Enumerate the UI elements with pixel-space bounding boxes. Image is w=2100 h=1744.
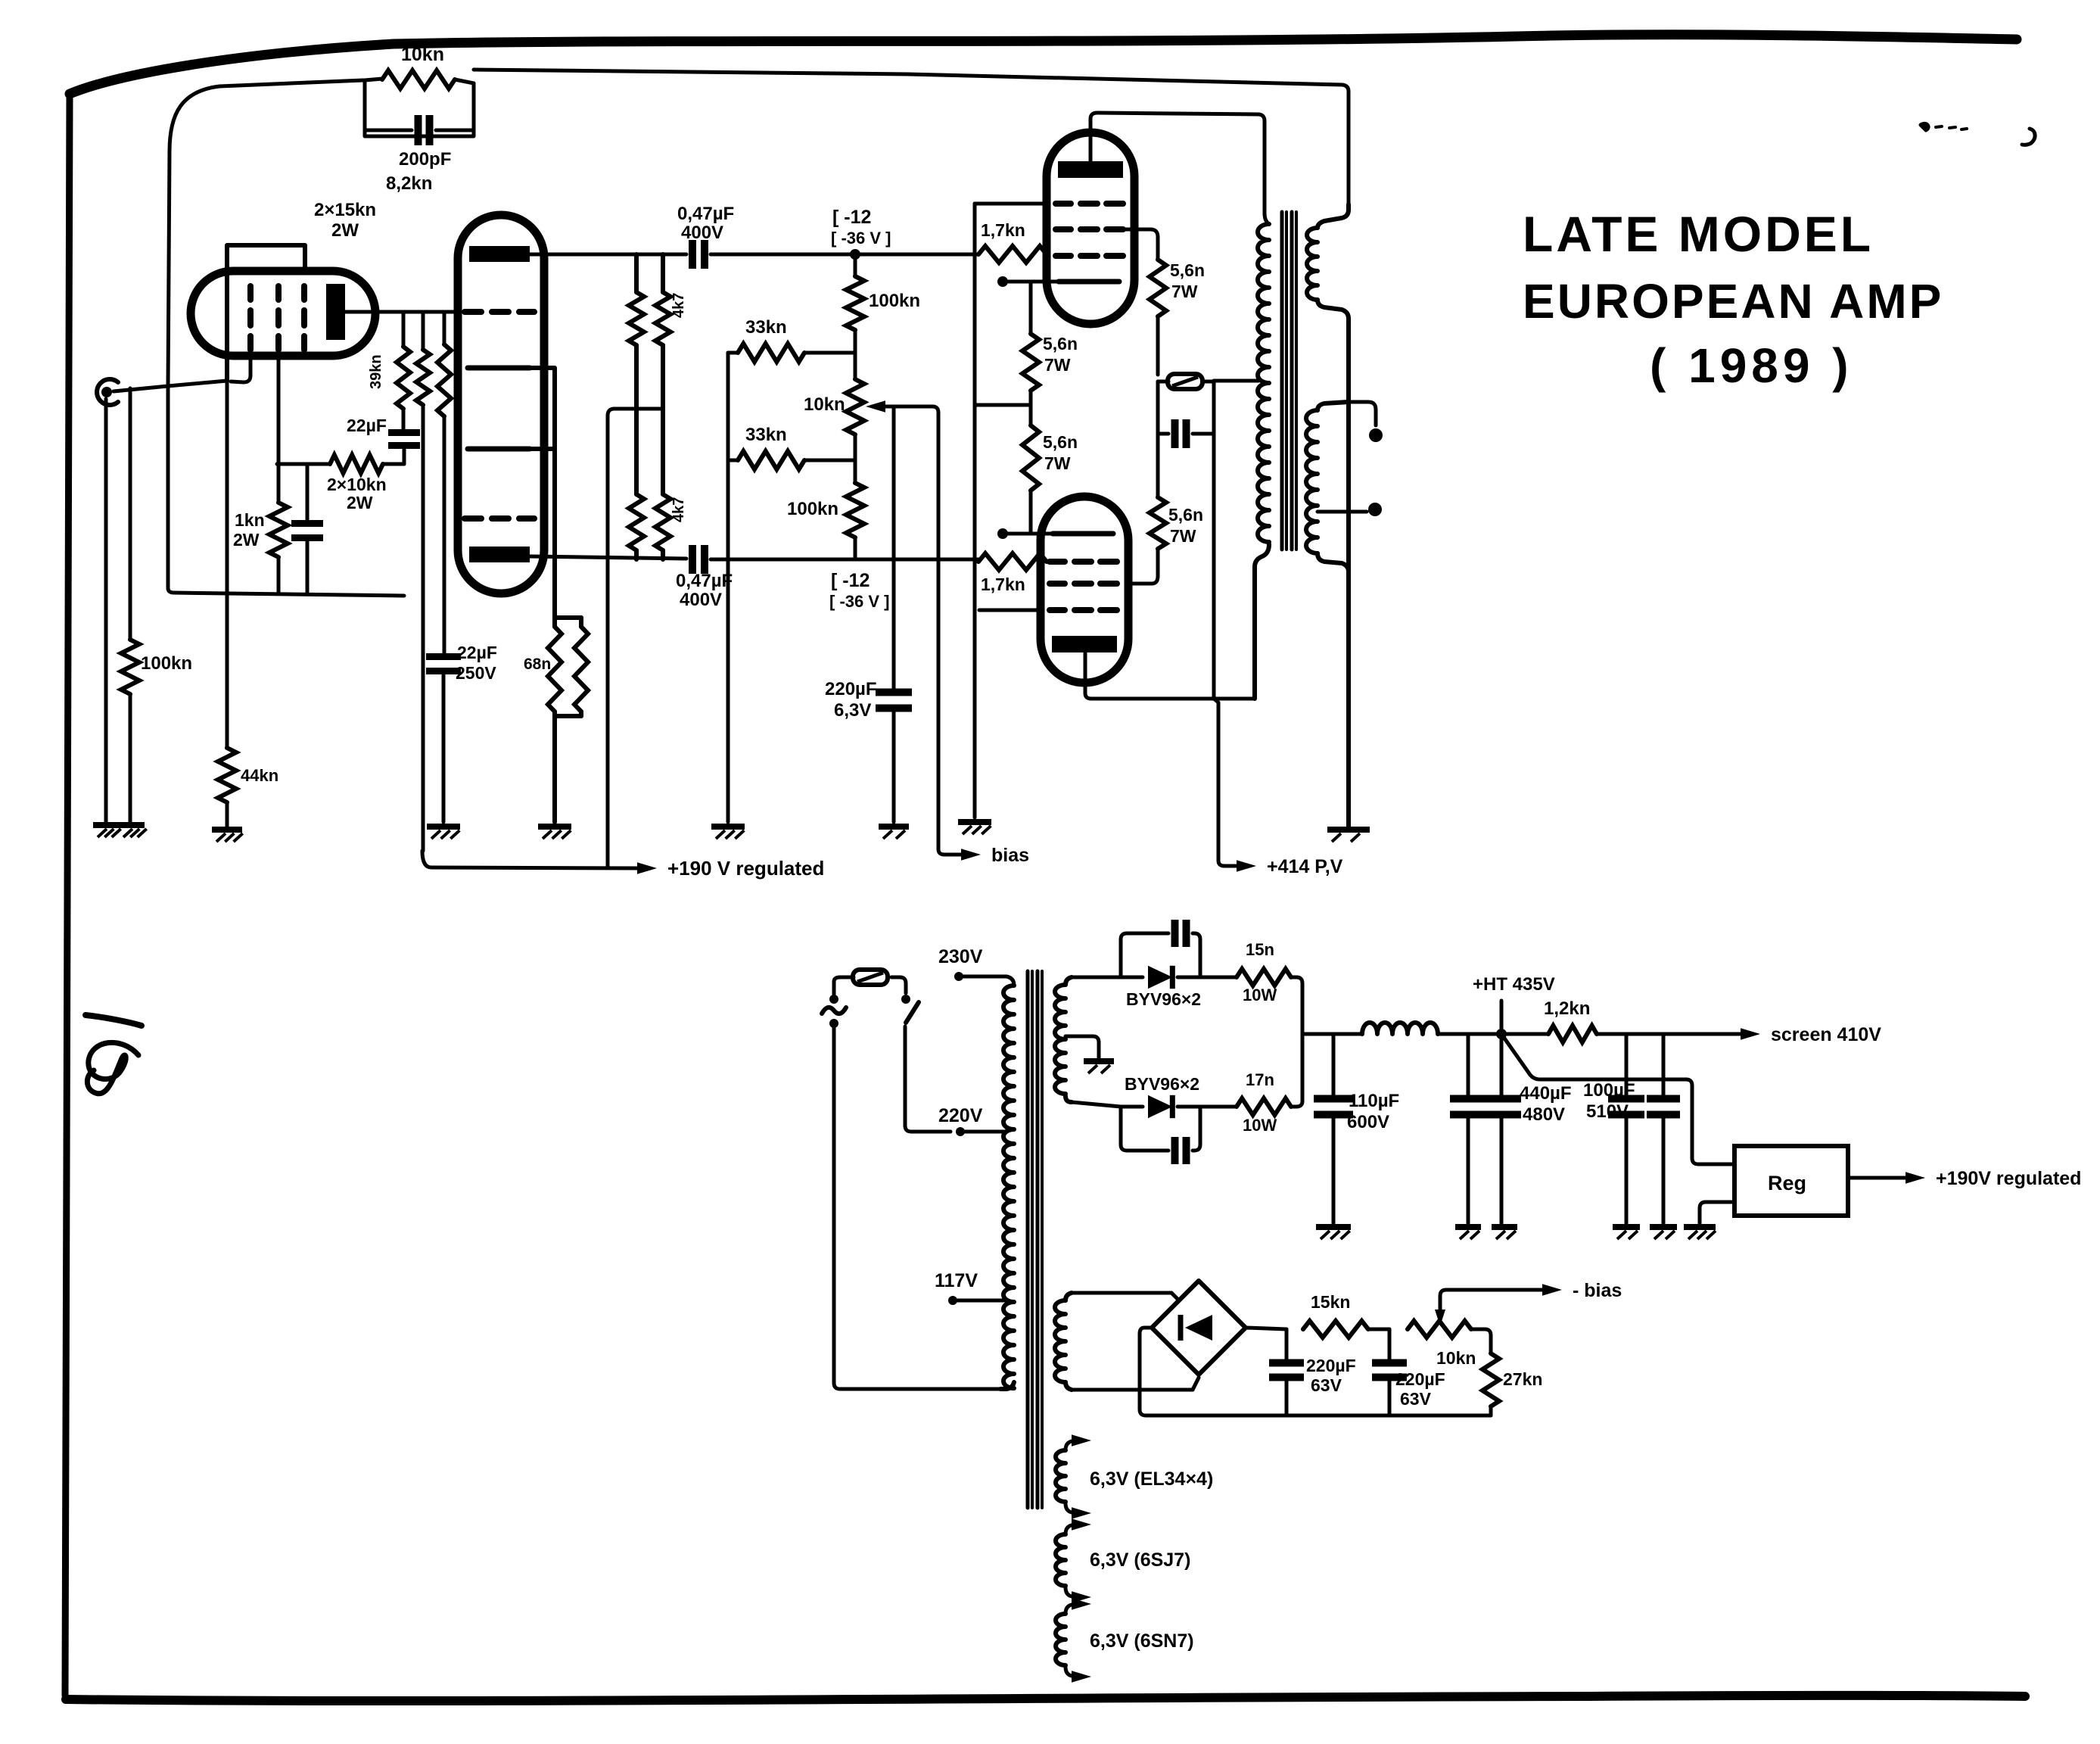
svg-text:2W: 2W bbox=[331, 220, 359, 241]
svg-text:230V: 230V bbox=[938, 946, 983, 967]
tube V4 cathode bbox=[1053, 531, 1113, 537]
wire V1 anode lead bbox=[345, 310, 458, 314]
svg-text:220µF: 220µF bbox=[825, 679, 877, 699]
wire feedback riser bbox=[168, 80, 363, 386]
label 27kn bbox=[1503, 1369, 1542, 1389]
svg-text:10kn: 10kn bbox=[804, 394, 845, 415]
svg-text:10kn: 10kn bbox=[401, 44, 444, 65]
resistor screen dropper bbox=[437, 312, 451, 656]
svg-text:BYV96×2: BYV96×2 bbox=[1125, 1074, 1199, 1094]
tube V1 grid cage box bbox=[227, 245, 305, 381]
tube V2 anode 1 plate bbox=[469, 246, 530, 262]
svg-text:2W: 2W bbox=[347, 493, 373, 512]
pot wiper arrow bbox=[866, 400, 885, 413]
svg-text:6,3V (6SJ7): 6,3V (6SJ7) bbox=[1090, 1549, 1190, 1571]
diode BYV96 top bbox=[1121, 966, 1200, 989]
label 117V bbox=[935, 1270, 978, 1291]
label 230V bbox=[938, 946, 983, 967]
tap 117V bbox=[948, 1296, 1005, 1305]
wire +190V regulated rail bbox=[422, 851, 639, 868]
label 22µF 250V bbox=[456, 643, 497, 683]
tail resistor with loop bbox=[548, 618, 588, 822]
svg-text:2×10kn: 2×10kn bbox=[327, 475, 387, 494]
regulator box bbox=[1734, 1146, 1848, 1216]
svg-text:100kn: 100kn bbox=[869, 291, 920, 311]
svg-text:220V: 220V bbox=[938, 1105, 983, 1126]
svg-text:1kn: 1kn bbox=[235, 510, 265, 530]
arrow screen 410V bbox=[1741, 1028, 1760, 1040]
svg-text:2W: 2W bbox=[233, 530, 260, 550]
label 1,7kn lower bbox=[981, 575, 1025, 594]
capacitor 440µF 480V bbox=[1482, 1034, 1521, 1223]
capacitor screen bypass bbox=[1158, 381, 1214, 448]
svg-text:220µF: 220µF bbox=[1395, 1369, 1445, 1389]
capacitor 110µF 600V bbox=[1314, 1034, 1353, 1223]
label 15kn bias bbox=[1311, 1292, 1350, 1312]
resistor 1,2kn screen feed bbox=[1548, 1026, 1741, 1042]
wire AC neutral down bbox=[834, 1028, 1000, 1389]
tube V2 grid 1 dashes bbox=[465, 309, 534, 315]
resistor 5,6n 7W V4 screen bbox=[1129, 434, 1166, 584]
wire HT bottom to rectifier bbox=[1072, 1102, 1121, 1107]
svg-text:220µF: 220µF bbox=[1306, 1356, 1356, 1375]
bypass capacitor top diode bbox=[1121, 920, 1200, 977]
svg-text:440µF: 440µF bbox=[1520, 1083, 1572, 1104]
label 100kn upper bbox=[869, 291, 920, 311]
svg-text:39kn: 39kn bbox=[368, 354, 384, 389]
label 220µF 63V a bbox=[1306, 1356, 1356, 1395]
svg-text:7W: 7W bbox=[1171, 282, 1198, 301]
wire fuse node to primary CT bbox=[1214, 379, 1258, 383]
svg-text:0,47µF: 0,47µF bbox=[676, 571, 733, 591]
wire fuse to switch bbox=[891, 977, 906, 993]
svg-text:bias: bias bbox=[991, 845, 1029, 866]
svg-text:7W: 7W bbox=[1044, 355, 1071, 375]
AC source terminals bbox=[822, 995, 846, 1028]
wire V2 anode1 to upper bus bbox=[530, 253, 686, 257]
svg-text:1,7kn: 1,7kn bbox=[981, 220, 1025, 240]
tube V4 anode plate bbox=[1052, 636, 1117, 652]
ground filter 2 bbox=[1455, 1227, 1481, 1239]
arrow +190V reg out bbox=[1906, 1172, 1925, 1184]
capacitor cathode bypass bbox=[291, 464, 323, 593]
wire HT top to rectifier bbox=[1072, 976, 1121, 979]
svg-text:600V: 600V bbox=[1347, 1112, 1389, 1132]
label +414 P.V bbox=[1267, 856, 1343, 877]
tube V4 grid2 dashes bbox=[1050, 581, 1117, 587]
capacitor 100µF 510V bbox=[1608, 1034, 1644, 1223]
tube V3 envelope bbox=[1047, 132, 1134, 324]
resistor 100kn lower bbox=[846, 460, 864, 559]
label 6,3V 6SJ7 bbox=[1090, 1549, 1190, 1571]
resistor 27kn bias bleed bbox=[1471, 1329, 1499, 1415]
wire V1 grid col1 to input bbox=[231, 356, 250, 382]
svg-text:100µF: 100µF bbox=[1583, 1080, 1635, 1101]
speaker terminal upper bbox=[1349, 402, 1383, 442]
svg-text:27kn: 27kn bbox=[1503, 1369, 1542, 1389]
resistor 2x10kn 2W bbox=[330, 455, 404, 473]
wire bias winding top to bridge bbox=[1072, 1293, 1178, 1300]
potentiometer 10kn bias bbox=[846, 353, 864, 460]
wire V3 anode to OT primary top bbox=[1090, 113, 1269, 224]
svg-text:10kn: 10kn bbox=[1436, 1348, 1476, 1368]
resistor 100kn upper bbox=[846, 254, 864, 353]
svg-text:250V: 250V bbox=[456, 663, 496, 683]
ground 100µF bbox=[1613, 1227, 1640, 1239]
resistor 15kn bias bbox=[1303, 1321, 1389, 1338]
ground 110µF bbox=[1316, 1227, 1351, 1239]
wire V3 cathode stub bbox=[997, 276, 1059, 287]
ground HT center tap bbox=[1084, 1061, 1114, 1073]
label R2 (rotated) bbox=[670, 497, 687, 522]
label +190V regulated out bbox=[1936, 1168, 2081, 1189]
ground grid leak bbox=[119, 825, 147, 837]
label 5,6n 7W lower cathode bbox=[1043, 432, 1078, 473]
svg-text:5,6n: 5,6n bbox=[1043, 334, 1078, 353]
label 5,6n 7W V3 screen bbox=[1170, 260, 1205, 301]
title line 3 (1989) bbox=[1650, 338, 1853, 393]
heater winding 6SJ7 bbox=[1056, 1518, 1091, 1603]
page number 21 (rotated handwriting) bbox=[86, 1015, 142, 1094]
OT secondary upper exit bbox=[1318, 300, 1349, 827]
bias pot wiper bbox=[1435, 1290, 1544, 1326]
arrow +190V regulated bbox=[637, 862, 657, 874]
PT core bbox=[1028, 971, 1042, 1508]
resistor 1,7kn lower bbox=[978, 553, 1047, 570]
ground speaker return bbox=[1327, 830, 1370, 842]
svg-text:( 1989 ): ( 1989 ) bbox=[1650, 338, 1853, 393]
tube V2 cathode 2 bbox=[468, 447, 530, 452]
wire cathode node horizontal bbox=[277, 462, 330, 466]
label (-12 -36V) lower bbox=[829, 570, 889, 611]
svg-text:33kn: 33kn bbox=[745, 425, 787, 445]
wire reg output bbox=[1848, 1176, 1907, 1180]
wire V1 cathode col2 down bbox=[277, 356, 281, 464]
label 10kn pot bbox=[804, 394, 845, 415]
capacitor 22µF 250V screen bypass bbox=[426, 657, 461, 823]
wire jack tip to grid network bbox=[114, 381, 227, 391]
switch mains bbox=[901, 995, 950, 1132]
page border bottom edge bbox=[66, 1696, 2025, 1701]
label +HT 435V bbox=[1473, 974, 1555, 995]
svg-text:5,6n: 5,6n bbox=[1043, 432, 1078, 452]
label 33kn lower bbox=[745, 425, 787, 445]
label 44kn bbox=[241, 766, 278, 785]
resistor 33kn lower bbox=[728, 451, 855, 469]
resistor 39kn anode chain bbox=[397, 312, 410, 433]
label 100µF 510V bbox=[1583, 1080, 1635, 1122]
wire reg ground bbox=[1700, 1202, 1734, 1223]
resistor V2 upper load a bbox=[629, 254, 644, 559]
capacitor 220µF 63V a bbox=[1269, 1329, 1304, 1415]
speaker tap lead bbox=[1318, 503, 1382, 516]
tube V1 grid dashes col3 bbox=[301, 286, 307, 350]
label screen 410V bbox=[1771, 1024, 1881, 1045]
svg-text:22µF: 22µF bbox=[347, 416, 387, 435]
rectifier join vertical bbox=[1296, 977, 1302, 1107]
label Reg bbox=[1768, 1172, 1806, 1194]
label 220µF 6,3V bbox=[825, 679, 877, 721]
label 22µF bbox=[347, 416, 387, 435]
label 200pF bbox=[399, 149, 451, 170]
tube V1 anode plate bbox=[326, 284, 345, 340]
svg-text:110µF: 110µF bbox=[1349, 1091, 1399, 1111]
heater winding 6SN7 bbox=[1056, 1598, 1091, 1683]
label 5,6n 7W upper cathode bbox=[1043, 334, 1078, 375]
tube V4 envelope bbox=[1041, 497, 1128, 683]
resistor 5,6n 7W V3 screen bbox=[1150, 260, 1166, 375]
PT HT center tap bbox=[1066, 1036, 1099, 1058]
label 220V bbox=[938, 1105, 983, 1126]
page border left edge bbox=[64, 97, 70, 1696]
label 100kn grid leak bbox=[141, 653, 192, 674]
node -12 -36V upper bbox=[850, 249, 860, 260]
svg-text:10W: 10W bbox=[1243, 986, 1277, 1004]
svg-text:BYV96×2: BYV96×2 bbox=[1126, 989, 1201, 1009]
resistor V2 upper load b bbox=[655, 254, 670, 559]
svg-text:44kn: 44kn bbox=[241, 766, 278, 785]
svg-text:7W: 7W bbox=[1170, 526, 1196, 546]
ground tail resistor bbox=[538, 827, 571, 839]
capacitor 220µF 63V b bbox=[1372, 1329, 1407, 1415]
svg-text:200pF: 200pF bbox=[399, 149, 451, 170]
svg-text:400V: 400V bbox=[681, 223, 723, 243]
svg-text:8,2kn: 8,2kn bbox=[386, 173, 432, 194]
svg-text:[ -36 V ]: [ -36 V ] bbox=[831, 229, 891, 248]
title line 2 EUROPEAN AMP bbox=[1523, 274, 1943, 329]
wire V4 anode to OT primary bottom bbox=[1085, 652, 1255, 699]
PT primary winding bbox=[1000, 986, 1014, 1389]
svg-text:4k7: 4k7 bbox=[670, 293, 687, 318]
potentiometer 10kn bias set bbox=[1408, 1321, 1471, 1338]
capacitor 22µF coupling bbox=[388, 433, 420, 465]
svg-text:+414 P,V: +414 P,V bbox=[1267, 856, 1343, 877]
svg-text:+190 V regulated: +190 V regulated bbox=[667, 857, 824, 880]
ground filter 5 bbox=[1650, 1227, 1677, 1239]
svg-text:screen 410V: screen 410V bbox=[1771, 1024, 1881, 1045]
tube V4 grid1 dashes bbox=[1050, 559, 1117, 565]
capacitor filter 2 bbox=[1450, 1034, 1486, 1223]
label 5,6n 7W V4 screen bbox=[1168, 505, 1203, 546]
svg-text:100kn: 100kn bbox=[141, 653, 192, 674]
wire wiper to bias feed bbox=[884, 406, 963, 855]
ground bias filter bbox=[879, 827, 909, 839]
svg-text:117V: 117V bbox=[935, 1270, 978, 1291]
svg-text:+190V regulated: +190V regulated bbox=[1936, 1168, 2081, 1189]
label +190V regulated bbox=[667, 857, 824, 880]
resistor 5,6n 7W lower cathode bbox=[1022, 405, 1039, 534]
label 15n 10W top bbox=[1243, 940, 1277, 1004]
svg-text:480V: 480V bbox=[1523, 1104, 1565, 1125]
page border top edge bbox=[70, 35, 2017, 94]
label 33kn upper bbox=[745, 317, 787, 338]
resistor 1kn 2W cathode bbox=[269, 464, 288, 592]
tube V4 grid3 dashes bbox=[1050, 607, 1117, 613]
svg-text:68n: 68n bbox=[524, 656, 551, 673]
tube V2 grid 2 dashes bbox=[465, 515, 534, 522]
svg-text:EUROPEAN AMP: EUROPEAN AMP bbox=[1523, 274, 1943, 329]
ground regulator bbox=[1684, 1227, 1716, 1239]
capacitor 0,47µF 400V lower bbox=[692, 545, 978, 574]
svg-text:0,47µF: 0,47µF bbox=[677, 204, 734, 224]
wire feedback top run to output transformer bbox=[474, 70, 1349, 204]
label 17n 10W bottom bbox=[1243, 1070, 1277, 1135]
resistor 10kn feedback bbox=[365, 70, 474, 89]
wire screen node down bbox=[1212, 381, 1216, 699]
label 6,3V 6SN7 bbox=[1090, 1630, 1194, 1652]
svg-text:1,7kn: 1,7kn bbox=[981, 575, 1025, 594]
wire rectifier output bbox=[1302, 1032, 1333, 1036]
wire V2 cathode bracket bbox=[530, 368, 555, 618]
fuse mains bbox=[853, 970, 888, 985]
svg-text:LATE MODEL: LATE MODEL bbox=[1523, 206, 1874, 262]
bypass capacitor bottom diode bbox=[1121, 1107, 1200, 1164]
wire divider vertical bbox=[726, 353, 730, 822]
label 2x10kn 2W bbox=[327, 475, 387, 512]
svg-text:1,2kn: 1,2kn bbox=[1544, 998, 1590, 1019]
fuse screen feed bbox=[1158, 374, 1214, 389]
stray mark top right 1 bbox=[1921, 123, 1967, 130]
tube V2 anode 2 plate bbox=[469, 547, 530, 562]
label 2x15kn 2W bbox=[314, 200, 376, 241]
label 1,7kn upper bbox=[981, 220, 1025, 240]
arrow +414 P.V bbox=[1237, 860, 1256, 872]
svg-text:400V: 400V bbox=[680, 590, 722, 610]
label 110µF 600V bbox=[1347, 1091, 1399, 1132]
svg-text:[ -36 V ]: [ -36 V ] bbox=[829, 592, 889, 611]
wire jack sleeve to ground bbox=[104, 399, 108, 822]
tube V2 envelope bbox=[458, 215, 544, 593]
svg-text:100kn: 100kn bbox=[787, 499, 838, 519]
svg-text:15n: 15n bbox=[1246, 940, 1274, 959]
svg-text:22µF: 22µF bbox=[457, 643, 497, 662]
PT HT secondary winding bbox=[1055, 977, 1072, 1102]
PT bias winding bbox=[1055, 1293, 1072, 1390]
svg-text:6,3V (6SN7): 6,3V (6SN7) bbox=[1090, 1630, 1194, 1652]
wire V2 anode2 to lower bus bbox=[530, 556, 686, 559]
svg-text:[ -12: [ -12 bbox=[831, 570, 870, 591]
resistor 17n 10W bottom bbox=[1200, 1098, 1296, 1115]
resistor 5,6n 7W upper cathode bbox=[1022, 282, 1039, 405]
label 1,2kn bbox=[1544, 998, 1590, 1019]
capacitor 220µF 6,3V bias filter bbox=[876, 406, 912, 822]
wire bridge left to rail bbox=[1140, 1328, 1491, 1415]
svg-text:6,3V: 6,3V bbox=[834, 700, 871, 721]
svg-text:+HT 435V: +HT 435V bbox=[1473, 974, 1555, 995]
svg-text:63V: 63V bbox=[1400, 1389, 1432, 1409]
ground g3 spine bbox=[958, 822, 991, 834]
OT secondary upper winding bbox=[1307, 204, 1349, 300]
svg-text:10W: 10W bbox=[1243, 1116, 1277, 1135]
wire bias winding bottom to bridge bbox=[1072, 1378, 1199, 1390]
tap 230V bbox=[954, 972, 1014, 986]
heater winding EL34 bbox=[1056, 1434, 1091, 1519]
label 0,47µF 400V lower bbox=[676, 571, 733, 610]
wire secondary bottom to ground bbox=[1318, 553, 1349, 571]
tube V3 anode plate bbox=[1058, 161, 1123, 178]
wire AC hot to fuse bbox=[834, 977, 854, 995]
OT primary winding bbox=[1255, 224, 1269, 699]
OT core bbox=[1282, 212, 1296, 550]
bridge rectifier diamond bbox=[1152, 1281, 1246, 1375]
label 0,47µF 400V upper bbox=[677, 204, 734, 243]
svg-text:7W: 7W bbox=[1044, 453, 1071, 473]
wire V4 cathode stub bbox=[997, 528, 1059, 539]
tube V1 envelope bbox=[191, 271, 375, 356]
label bias bbox=[991, 845, 1029, 866]
ground divider bbox=[711, 827, 745, 839]
label BYV96x2 bottom bbox=[1125, 1074, 1199, 1094]
tube V3 grid3 dashes bbox=[1056, 201, 1123, 207]
label 8,2kn bbox=[386, 173, 432, 194]
resistor 15n 10W top bbox=[1200, 969, 1296, 986]
choke filter bbox=[1333, 1023, 1468, 1034]
label tail resistor bbox=[524, 656, 551, 673]
label 100kn lower bbox=[787, 499, 838, 519]
node +HT 435V bbox=[1468, 1001, 1548, 1039]
ground jack sleeve bbox=[93, 825, 121, 837]
wire reg feed diagonal bbox=[1501, 1034, 1734, 1164]
arrow bias bbox=[961, 849, 981, 861]
svg-text:63V: 63V bbox=[1311, 1375, 1342, 1395]
tube V1 grid dashes col2 bbox=[275, 286, 282, 350]
label 440µF 480V bbox=[1520, 1083, 1572, 1125]
ground 440µF bbox=[1492, 1227, 1517, 1239]
capacitor filter 5 bbox=[1647, 1034, 1680, 1223]
title line 1 LATE MODEL bbox=[1523, 206, 1874, 262]
resistor 33kn upper bbox=[728, 344, 855, 362]
input jack J1 bbox=[97, 379, 118, 405]
svg-text:- bias: - bias bbox=[1573, 1280, 1622, 1301]
wire cathode return rail bbox=[168, 386, 404, 596]
svg-text:17n: 17n bbox=[1246, 1070, 1274, 1089]
svg-text:Reg: Reg bbox=[1768, 1172, 1806, 1194]
feedback network box (10kn + 200pF) bbox=[365, 80, 474, 136]
label 39kn (rotated) bbox=[368, 354, 384, 389]
resistor 100kn grid leak bbox=[121, 388, 139, 822]
svg-text:15kn: 15kn bbox=[1311, 1292, 1350, 1312]
svg-text:[ -12: [ -12 bbox=[832, 207, 871, 228]
wire B+ drop to label bbox=[1214, 699, 1238, 866]
svg-text:5,6n: 5,6n bbox=[1168, 505, 1203, 525]
svg-text:510V: 510V bbox=[1586, 1101, 1629, 1122]
svg-text:5,6n: 5,6n bbox=[1170, 260, 1205, 280]
svg-text:4k7: 4k7 bbox=[670, 497, 687, 522]
tube V3 grid2 dashes bbox=[1056, 226, 1123, 232]
svg-text:6,3V (EL34×4): 6,3V (EL34×4) bbox=[1090, 1468, 1213, 1490]
wire V3 screen lead bbox=[1123, 229, 1158, 260]
arrow -bias bbox=[1542, 1284, 1562, 1296]
label (-12 -36V) upper bbox=[831, 207, 891, 248]
tap 220V bbox=[956, 1127, 1005, 1136]
label 220µF 63V b bbox=[1395, 1369, 1445, 1409]
tube V3 cathode bbox=[1059, 279, 1119, 285]
tube V3 grid1 dashes bbox=[1056, 253, 1123, 259]
wire bridge output right bbox=[1246, 1328, 1286, 1329]
ground screen bypass bbox=[427, 827, 460, 839]
tube V1 grid dashes col1 bbox=[247, 286, 254, 350]
tube V2 cathode 1 bbox=[468, 366, 530, 371]
capacitor 0,47µF 400V upper bbox=[692, 240, 978, 269]
bridge internal diode bbox=[1181, 1315, 1212, 1341]
ground 44kn bbox=[212, 830, 243, 842]
wire +190V riser to splitter bbox=[608, 409, 663, 867]
svg-text:2×15kn: 2×15kn bbox=[314, 200, 376, 220]
label R1 (rotated) bbox=[670, 293, 687, 318]
wire g3 spine bbox=[975, 204, 1047, 817]
resistor 44kn bbox=[218, 381, 236, 827]
label -bias bbox=[1573, 1280, 1622, 1301]
